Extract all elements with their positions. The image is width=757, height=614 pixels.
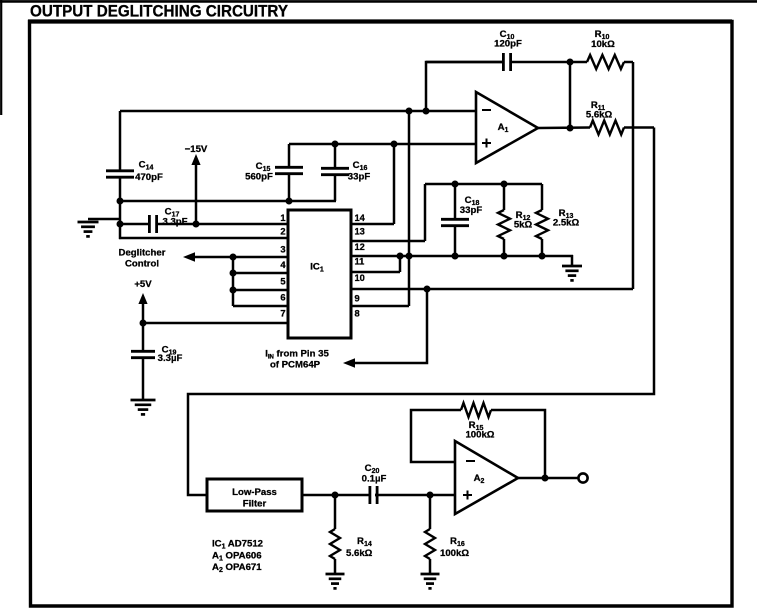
svg-text:0.1µF: 0.1µF bbox=[362, 474, 387, 485]
svg-text:470pF: 470pF bbox=[135, 172, 163, 183]
svg-text:120pF: 120pF bbox=[494, 39, 522, 50]
svg-text:5.6kΩ: 5.6kΩ bbox=[346, 548, 373, 559]
svg-text:2.5kΩ: 2.5kΩ bbox=[553, 218, 580, 229]
svg-text:560pF: 560pF bbox=[245, 172, 273, 183]
svg-text:Deglitcher: Deglitcher bbox=[119, 248, 166, 259]
svg-text:10kΩ: 10kΩ bbox=[591, 39, 615, 50]
svg-text:5kΩ: 5kΩ bbox=[514, 220, 533, 231]
svg-text:+5V: +5V bbox=[134, 279, 152, 290]
svg-text:of PCM64P: of PCM64P bbox=[270, 360, 321, 371]
svg-text:11: 11 bbox=[355, 257, 365, 267]
svg-text:5: 5 bbox=[280, 277, 285, 287]
svg-text:Control: Control bbox=[125, 259, 159, 270]
svg-text:12: 12 bbox=[355, 242, 365, 252]
svg-text:5.6kΩ: 5.6kΩ bbox=[586, 110, 613, 121]
svg-text:10: 10 bbox=[355, 273, 365, 283]
svg-text:9: 9 bbox=[355, 294, 360, 304]
svg-text:OUTPUT DEGLITCHING CIRCUITRY: OUTPUT DEGLITCHING CIRCUITRY bbox=[30, 3, 288, 21]
svg-text:3: 3 bbox=[280, 245, 285, 255]
svg-text:13: 13 bbox=[355, 227, 365, 237]
svg-text:−15V: −15V bbox=[185, 144, 208, 155]
svg-text:100kΩ: 100kΩ bbox=[465, 430, 494, 441]
svg-text:Low-Pass: Low-Pass bbox=[232, 487, 277, 498]
svg-text:100kΩ: 100kΩ bbox=[440, 548, 469, 559]
svg-text:8: 8 bbox=[355, 309, 360, 319]
svg-text:Filter: Filter bbox=[243, 499, 267, 510]
svg-text:14: 14 bbox=[355, 213, 366, 223]
svg-text:3.3µF: 3.3µF bbox=[158, 353, 183, 364]
svg-text:33pF: 33pF bbox=[460, 205, 483, 216]
svg-text:2: 2 bbox=[280, 227, 285, 237]
svg-text:1: 1 bbox=[280, 213, 285, 223]
svg-text:6: 6 bbox=[280, 293, 285, 303]
svg-text:7: 7 bbox=[280, 309, 285, 319]
svg-text:4: 4 bbox=[280, 260, 286, 270]
svg-text:IC1 AD7512: IC1 AD7512 bbox=[212, 539, 263, 551]
svg-text:3.3pF: 3.3pF bbox=[162, 217, 187, 228]
svg-text:33pF: 33pF bbox=[348, 172, 371, 183]
